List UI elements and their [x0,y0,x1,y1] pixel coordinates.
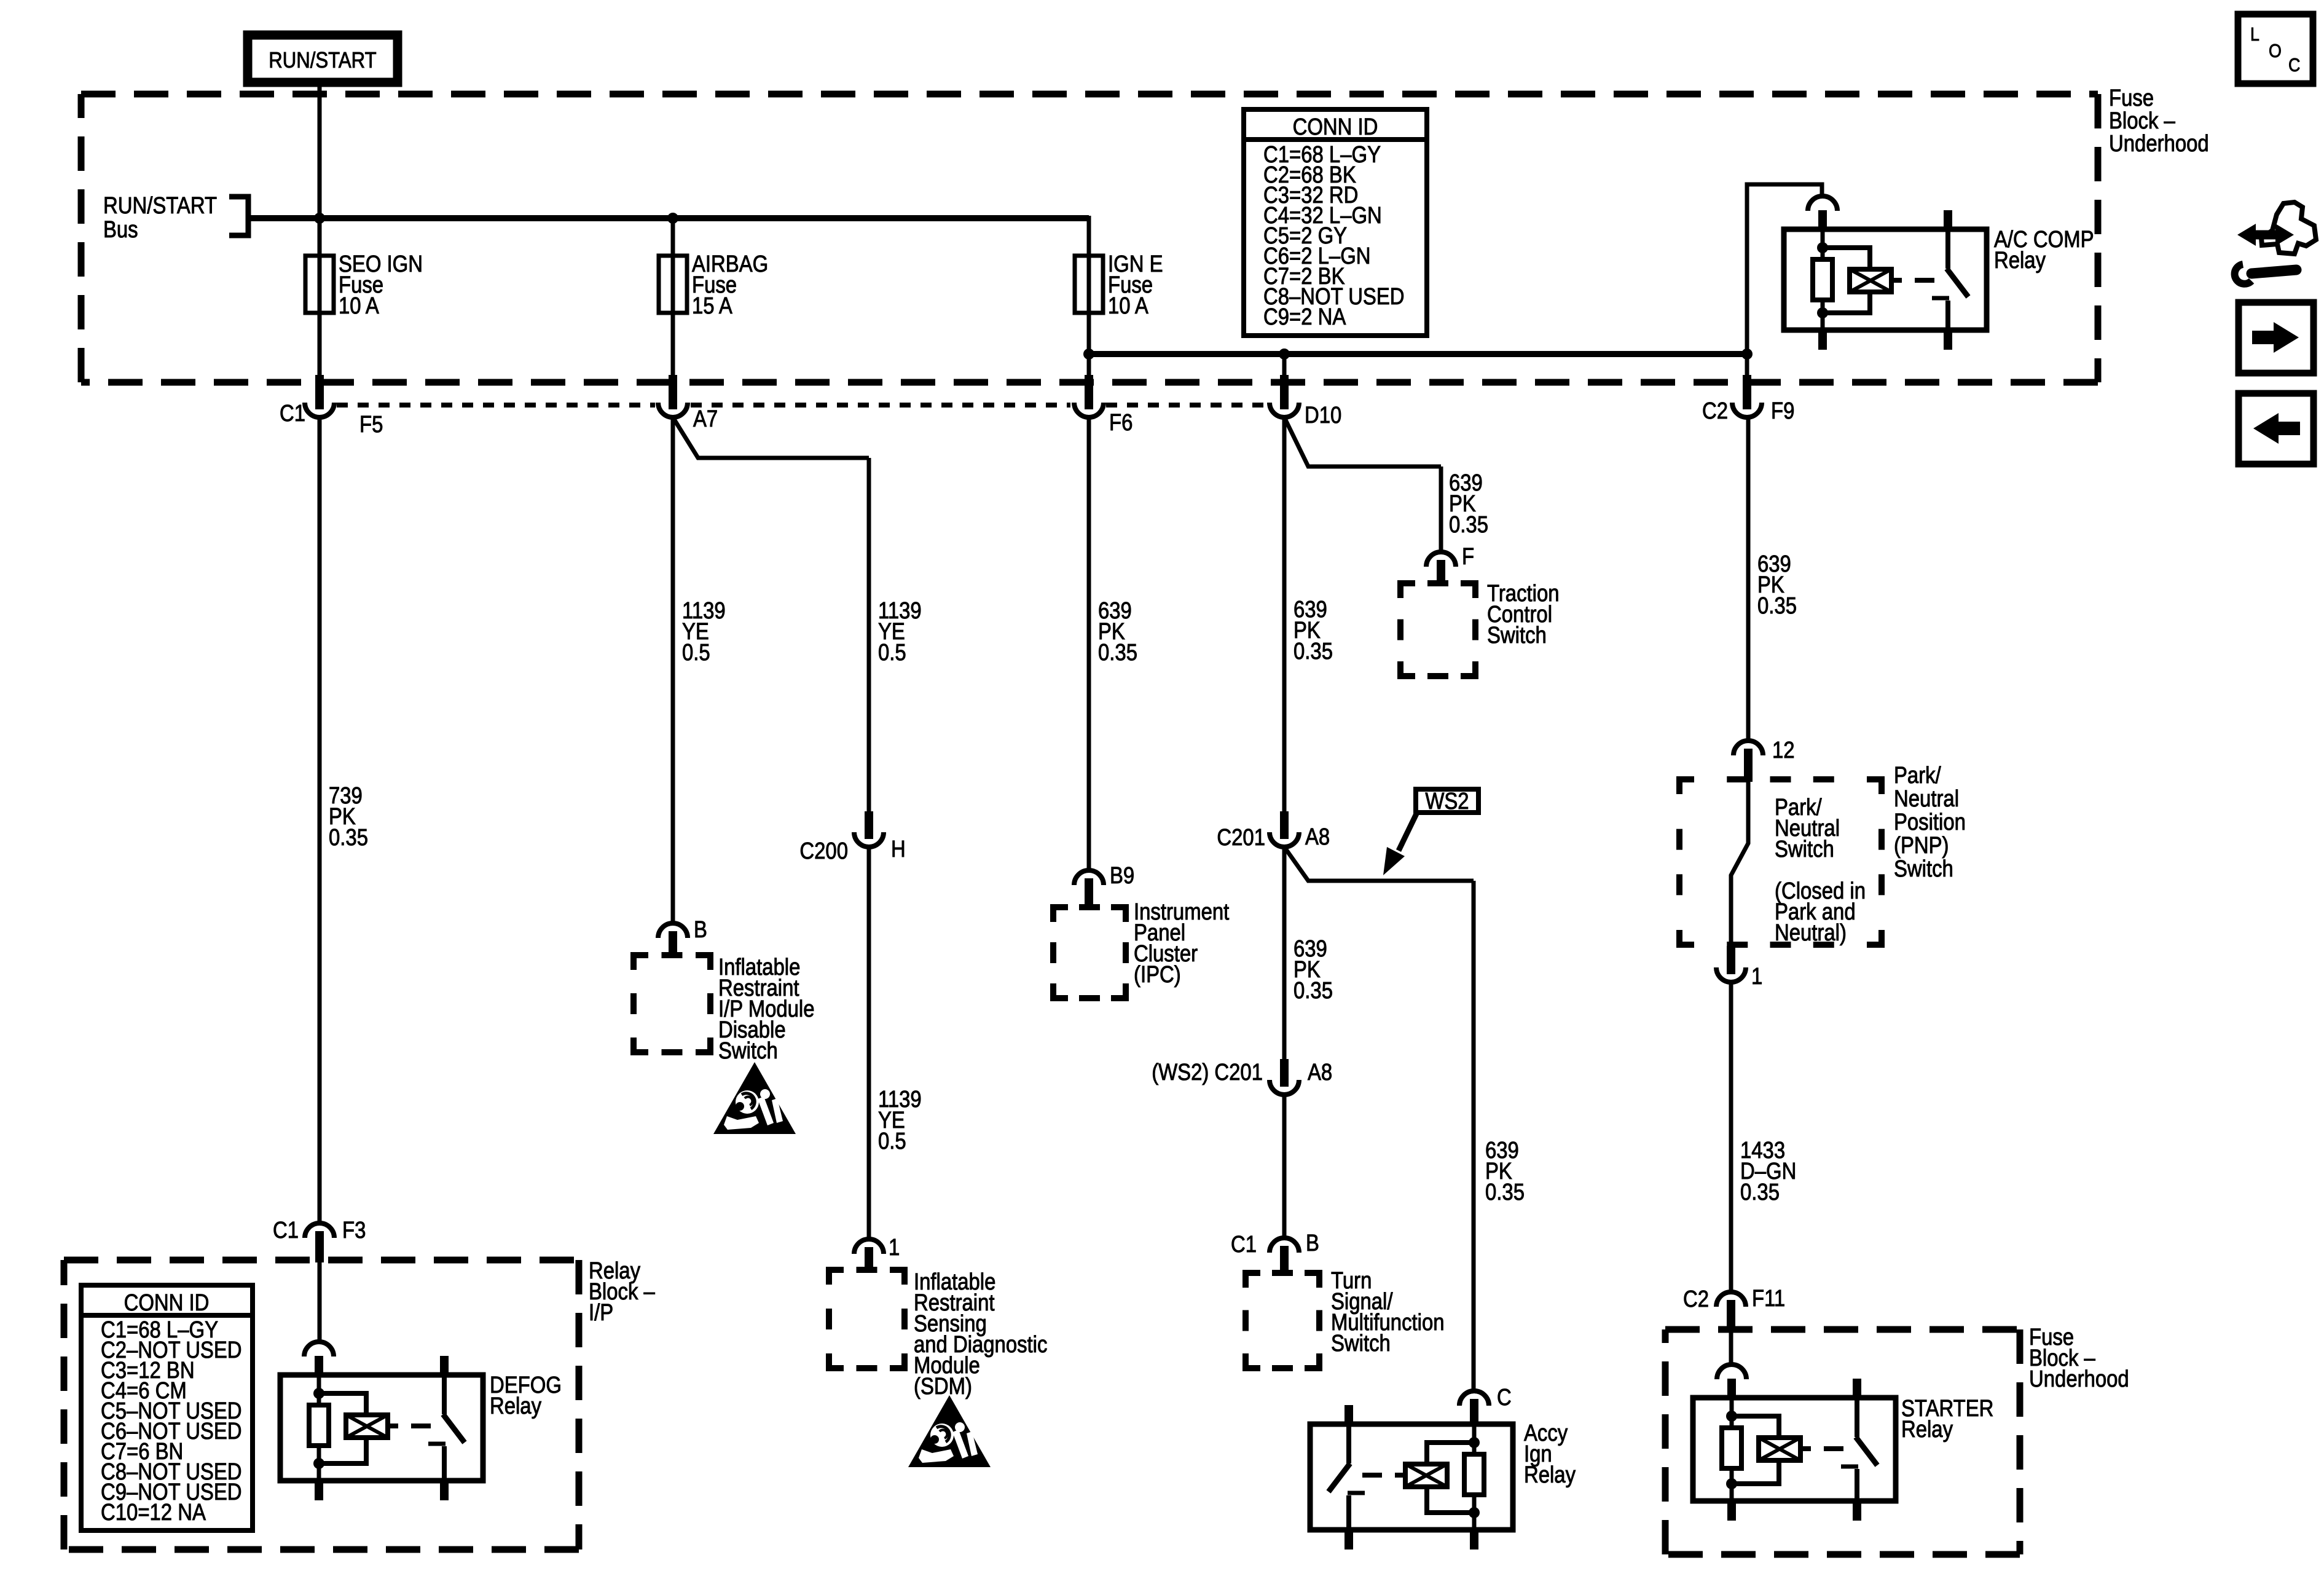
wire: IGN E bus2 to F6 [1087,354,1091,377]
wire: AIRBAG fuse to A7 [671,313,675,377]
wire: bus2 to D10 [1282,354,1287,377]
node RUN/START Bus bracket [229,197,248,235]
box: Traction Control Switch [1400,583,1415,598]
connector B9 (IPC) [1074,870,1104,885]
fuse F5 SEO IGN 10A [318,216,322,318]
svg-text:A8: A8 [1305,824,1330,850]
node WS2 callout box [1416,789,1478,813]
wire: A8 jog to accy branch [1284,847,1474,881]
svg-text:Park/: Park/ [1894,763,1941,789]
svg-text:Bus: Bus [103,217,138,243]
svg-text:F9: F9 [1771,398,1794,424]
svg-text:(IPC): (IPC) [1134,962,1181,988]
relay U1 A/C COMP [1784,196,1987,350]
relay block I/P dashed border [64,1257,579,1264]
svg-text:CONN ID: CONN ID [1293,114,1378,140]
connector B (disable switch) [658,923,688,938]
switch blade: PNP internal [1731,782,1748,946]
wire: F3 into relay block [318,1261,322,1343]
svg-text:F5: F5 [359,412,383,438]
svg-text:Underhood: Underhood [2109,131,2209,157]
svg-text:F: F [1462,544,1474,570]
svg-text:RUN/START: RUN/START [103,193,217,219]
svg-text:0.35: 0.35 [1294,978,1333,1004]
wire 639 PK (F6 to B9) [1087,417,1091,871]
svg-text:C200: C200 [799,838,848,864]
connector F (traction control switch) [1426,552,1456,567]
svg-text:Relay: Relay [490,1393,541,1419]
wire 1139 YE (C200 to SDM) [867,847,871,1239]
svg-text:CONN ID: CONN ID [124,1290,210,1316]
wire 639 PK (F9 to PNP 12) [1746,417,1751,741]
icon: forward arrow box [2239,302,2314,373]
connector 12 (PNP switch) [1733,741,1763,755]
connector C2/F11 [1716,1292,1746,1307]
svg-text:10 A: 10 A [1108,293,1148,319]
connector A7 [669,375,677,409]
svg-text:C10=12 NA: C10=12 NA [101,1500,206,1526]
svg-text:Position: Position [1894,809,1966,835]
wire 639 PK (to turn signal) [1282,1095,1287,1238]
svg-text:0.35: 0.35 [1449,512,1488,538]
svg-text:C2: C2 [1683,1286,1709,1312]
svg-text:Switch: Switch [718,1038,778,1064]
box: Inflatable Restraint Sensing and Diagnostic Module (SDM) [829,1270,844,1285]
svg-text:Switch: Switch [1487,623,1547,648]
svg-text:H: H [891,837,906,862]
svg-text:0.5: 0.5 [878,640,906,666]
svg-text:Relay: Relay [1524,1462,1576,1488]
connector C2/F9 [1743,375,1751,409]
fuse block underhood (top) dashed border [81,91,2098,98]
svg-text:0.35: 0.35 [1485,1179,1525,1205]
svg-text:0.35: 0.35 [1757,593,1797,619]
wire: feed to A/C COMP relay [1747,184,1822,354]
svg-text:Relay: Relay [1901,1417,1953,1443]
box: Instrument Panel Cluster (IPC) [1053,907,1068,922]
svg-text:0.35: 0.35 [1294,639,1333,664]
node tag RUN/START (power feed box) [248,35,398,82]
svg-text:C1: C1 [1231,1232,1257,1258]
svg-text:Underhood: Underhood [2029,1366,2129,1392]
wire 639 PK (D10 down) [1282,417,1287,811]
svg-text:Fuse: Fuse [2109,85,2154,111]
relay K3 Accy Ign (mirrored) [1310,1391,1513,1549]
connector D10 [1280,375,1289,409]
icon: airbag warning triangle (disable switch) [713,1062,796,1134]
svg-text:A8: A8 [1308,1060,1332,1085]
svg-text:1: 1 [1751,964,1762,990]
table: CONN ID (fuse block underhood) [1244,109,1427,336]
wire 1139 YE (to C200) [867,458,871,811]
svg-text:C: C [1497,1385,1512,1411]
svg-text:0.35: 0.35 [329,825,368,851]
wire: ignition bus 2 (horizontal) [1089,351,1747,357]
svg-text:F11: F11 [1752,1286,1785,1312]
svg-text:(PNP): (PNP) [1894,833,1949,859]
connector C201/A8 (1st) [1280,811,1289,839]
svg-text:Relay: Relay [1994,248,2046,274]
svg-text:Switch: Switch [1894,856,1953,882]
svg-text:0.35: 0.35 [1098,640,1137,666]
svg-text:C1: C1 [273,1218,299,1243]
svg-text:Block –: Block – [2109,108,2176,134]
wire: traction branch drop [1439,467,1443,552]
svg-text:(WS2) C201: (WS2) C201 [1152,1060,1263,1085]
wire 639 PK (A8 to WS2 A8) [1282,847,1287,1059]
wire: A7 jog to SDM branch [673,417,869,458]
svg-text:B: B [694,917,707,943]
svg-text:(SDM): (SDM) [914,1374,972,1400]
box: Inflatable Restraint I/P Module Disable Switch [634,955,648,970]
connector C1/F5 [315,375,324,409]
svg-text:Neutral: Neutral [1894,786,1959,812]
relay K2 DEFOG [280,1342,483,1500]
junction at IGN E column [1083,348,1094,360]
fuse AIRBAG 15A [671,216,675,318]
wire: F11 into fuse block [1729,1331,1733,1366]
junction at A/C relay feed / F9 [1741,348,1753,360]
icon: back arrow box [2239,393,2314,464]
connector C1/B (turn signal switch) [1270,1238,1299,1253]
svg-text:0.5: 0.5 [878,1128,906,1154]
junction on bus at AIRBAG fuse [667,213,678,224]
svg-text:Neutral): Neutral) [1775,920,1847,946]
svg-text:D10: D10 [1305,403,1341,428]
wire: SEO IGN fuse to C1/F5 [318,313,322,377]
table: CONN ID (relay block I/P) [81,1285,253,1530]
connector 1 (SDM) [854,1239,884,1254]
svg-text:B9: B9 [1110,863,1134,889]
svg-text:10 A: 10 A [339,293,379,319]
connector 1 (PNP bottom) [1727,946,1735,974]
svg-text:F6: F6 [1109,410,1133,436]
junction at D10 column [1279,348,1290,360]
icon: service tool (double arrow, part outline, wrench) [2250,230,2281,240]
svg-text:Switch: Switch [1775,837,1834,862]
icon: LOC box [2238,14,2313,84]
svg-text:O: O [2269,40,2282,61]
interface: fuse block C1 dotted line [337,403,655,408]
box: Park/Neutral Position switch dashed [1679,779,1694,794]
svg-text:L: L [2250,23,2259,45]
connector C1/F3 [305,1223,334,1238]
wire 1139 YE (A7 to B) [671,417,675,923]
svg-text:12: 12 [1772,738,1795,763]
svg-text:C201: C201 [1217,825,1265,851]
svg-text:0.5: 0.5 [682,640,710,666]
wire 1433 D-GN (PNP to F11) [1729,982,1733,1293]
fuse block underhood (bottom) dashed border [1665,1326,2020,1333]
wire: RUN/START feed drop from tag to bus [318,80,322,216]
svg-text:C1: C1 [280,401,305,427]
svg-text:I/P: I/P [589,1300,613,1326]
wire: IGN E fuse to second bus [1087,313,1091,354]
svg-text:15 A: 15 A [692,293,732,319]
wire 639 PK (accy drop) [1472,881,1476,1392]
connector F6 [1085,375,1093,409]
connector C200/H [865,811,873,839]
svg-text:C: C [2288,54,2300,76]
svg-text:C2: C2 [1702,398,1728,424]
connector (WS2) C201/A8 (2nd) [1280,1059,1289,1087]
svg-text:1: 1 [889,1235,900,1261]
icon: airbag warning triangle (SDM) [908,1395,991,1467]
wire: bus2 to C2/F9 [1745,354,1749,377]
svg-text:0.35: 0.35 [1740,1179,1780,1205]
svg-text:C9=2 NA: C9=2 NA [1263,304,1346,330]
junction on bus at SEO IGN fuse [314,213,325,224]
fuse IGN E 10A [1087,216,1091,318]
connector C (accy ign relay) [1459,1391,1489,1406]
svg-text:WS2: WS2 [1425,789,1469,814]
svg-text:F3: F3 [342,1218,366,1243]
svg-text:A7: A7 [693,406,718,432]
svg-text:RUN/START: RUN/START [269,47,376,73]
wire 739 PK 0.35 (F5 to F3) [318,417,322,1225]
wire: RUN/START bus (horizontal) [248,215,1089,221]
node WS2 arrow [1399,813,1417,851]
relay K4 STARTER [1693,1364,1896,1521]
svg-text:Switch: Switch [1331,1331,1391,1357]
svg-text:B: B [1306,1231,1319,1256]
box: Turn Signal/Multifunction Switch [1246,1273,1260,1288]
wire: D10 jog to traction branch [1284,417,1441,467]
